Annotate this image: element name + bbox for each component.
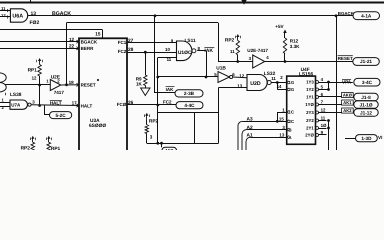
svg-text:15: 15 xyxy=(95,32,101,37)
svg-text:3-4C: 3-4C xyxy=(362,80,373,85)
svg-text:2Y2: 2Y2 xyxy=(306,118,314,123)
svg-text:VI: VI xyxy=(378,135,382,140)
svg-text:1K2: 1K2 xyxy=(165,148,173,150)
svg-text:FCØ: FCØ xyxy=(117,102,127,107)
svg-text:FC2: FC2 xyxy=(163,99,172,104)
svg-text:RP2: RP2 xyxy=(149,118,159,124)
svg-text:11: 11 xyxy=(321,116,326,121)
svg-text:1YØ: 1YØ xyxy=(305,102,314,107)
svg-text:1Y3: 1Y3 xyxy=(306,80,314,85)
svg-text:+5V: +5V xyxy=(275,24,284,29)
svg-text:U2E-7417: U2E-7417 xyxy=(247,48,268,53)
svg-text:U7A: U7A xyxy=(11,103,21,108)
svg-text:1Y2: 1Y2 xyxy=(306,87,314,92)
svg-text:14: 14 xyxy=(277,84,282,89)
svg-text:22: 22 xyxy=(69,44,75,49)
svg-text:AK1: AK1 xyxy=(343,100,352,105)
svg-text:12: 12 xyxy=(1,13,6,18)
svg-text:HALT: HALT xyxy=(50,101,62,106)
svg-text:11: 11 xyxy=(271,76,276,81)
svg-text:J1-1Ø: J1-1Ø xyxy=(359,102,372,107)
svg-text:J1-8: J1-8 xyxy=(361,95,371,100)
svg-text:BGACK: BGACK xyxy=(52,11,71,17)
svg-text:AK2: AK2 xyxy=(343,108,352,113)
svg-text:3: 3 xyxy=(150,135,153,140)
svg-text:10: 10 xyxy=(165,47,170,52)
svg-text:U2D: U2D xyxy=(250,81,261,87)
svg-text:18: 18 xyxy=(69,80,75,85)
svg-text:5-2C: 5-2C xyxy=(56,113,67,118)
svg-text:1G: 1G xyxy=(289,80,295,85)
svg-text:15: 15 xyxy=(279,117,284,122)
svg-text:J1-21: J1-21 xyxy=(360,59,372,64)
svg-text:4-1A: 4-1A xyxy=(361,13,372,18)
svg-text:6SØØØ: 6SØØØ xyxy=(89,123,106,129)
svg-text:2C: 2C xyxy=(289,119,295,124)
svg-text:1Y1: 1Y1 xyxy=(306,95,314,100)
svg-text:2-3B: 2-3B xyxy=(184,91,195,96)
svg-text:11: 11 xyxy=(230,49,235,54)
svg-text:VPA: VPA xyxy=(342,80,352,85)
svg-text:13: 13 xyxy=(31,11,37,17)
svg-text:R12: R12 xyxy=(290,39,299,44)
svg-text:BGACK: BGACK xyxy=(81,40,98,45)
svg-text:4-4C: 4-4C xyxy=(184,103,195,108)
svg-text:1Ø: 1Ø xyxy=(321,123,327,128)
svg-text:LS38: LS38 xyxy=(10,92,22,98)
svg-text:IAK: IAK xyxy=(166,87,175,92)
svg-text:RP2: RP2 xyxy=(225,38,235,44)
svg-text:2YØ: 2YØ xyxy=(305,133,314,138)
svg-text:RP1: RP1 xyxy=(28,67,38,73)
svg-text:HALT: HALT xyxy=(81,103,93,108)
svg-text:AKØ: AKØ xyxy=(343,93,353,98)
svg-text:2G: 2G xyxy=(289,87,295,92)
svg-text:2Y1: 2Y1 xyxy=(306,126,314,131)
svg-text:U1B: U1B xyxy=(216,66,226,72)
svg-text:LS11: LS11 xyxy=(185,38,197,44)
svg-text:FC2: FC2 xyxy=(118,49,127,54)
svg-text:RESET: RESET xyxy=(338,56,354,61)
svg-text:7417: 7417 xyxy=(54,90,65,95)
svg-text:2Y3: 2Y3 xyxy=(306,110,314,115)
svg-text:U6A: U6A xyxy=(12,14,23,20)
svg-text:U1ØC: U1ØC xyxy=(178,50,192,56)
svg-text:13: 13 xyxy=(279,133,284,138)
svg-text:FØ2: FØ2 xyxy=(30,20,40,26)
svg-text:1C: 1C xyxy=(289,110,295,115)
svg-text:RESET: RESET xyxy=(81,83,96,88)
svg-text:J1-12: J1-12 xyxy=(360,110,372,115)
svg-text:3.3K: 3.3K xyxy=(290,44,300,49)
svg-text:FC1: FC1 xyxy=(118,40,127,45)
svg-text:12: 12 xyxy=(32,76,37,81)
svg-text:1K: 1K xyxy=(136,81,143,86)
svg-text:RP2: RP2 xyxy=(21,146,31,150)
svg-text:BERR: BERR xyxy=(81,46,95,51)
svg-text:1-3D: 1-3D xyxy=(361,136,372,141)
svg-text:BGACK: BGACK xyxy=(338,11,355,16)
svg-text:12: 12 xyxy=(321,108,326,113)
svg-text:RP1: RP1 xyxy=(51,146,61,150)
